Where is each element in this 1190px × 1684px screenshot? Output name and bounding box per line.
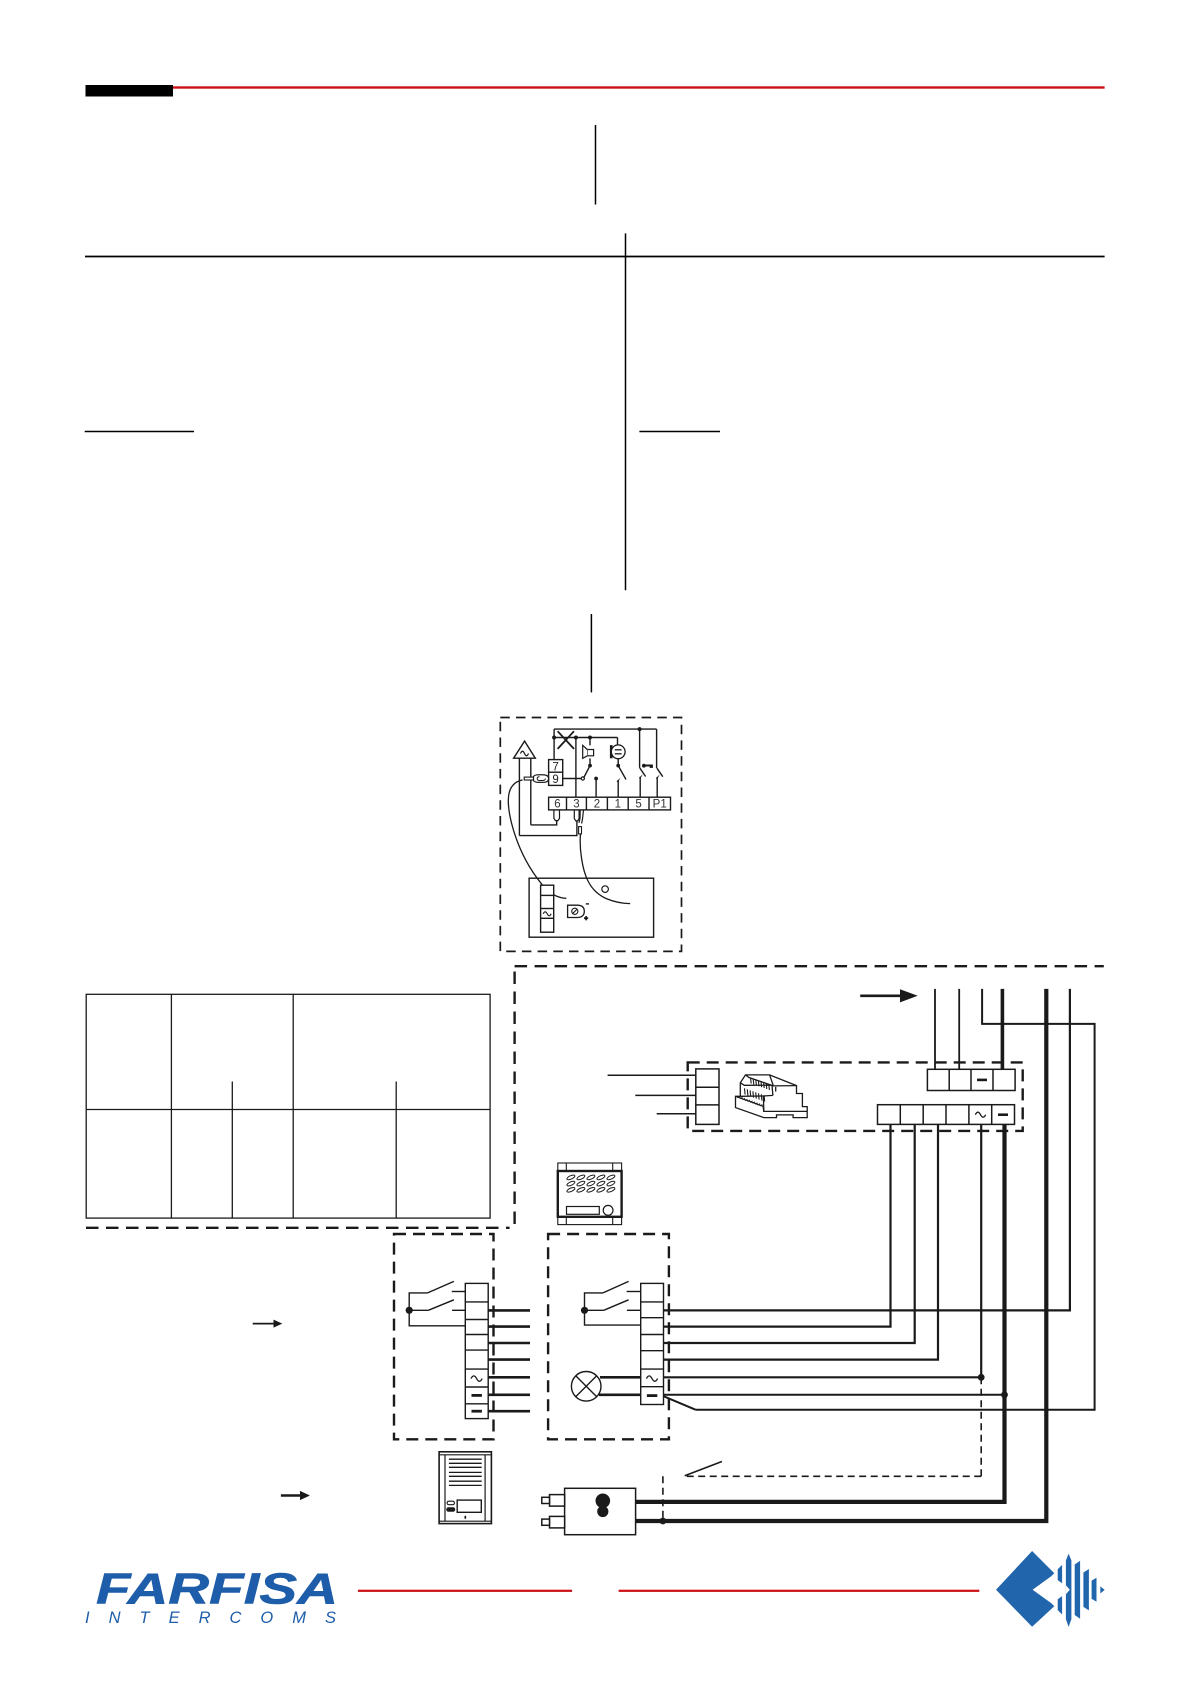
wire PSU down 3 — [664, 1124, 939, 1359]
wire thick lock bus — [636, 989, 1047, 1521]
PSU module fins row 2 — [745, 1088, 765, 1101]
wire terminal 3 drop — [575, 738, 577, 798]
mic switch pivot node — [616, 764, 620, 768]
wire from 9 to hook contact — [563, 778, 582, 780]
cord connector sleeve — [579, 827, 582, 834]
mid contact node — [594, 777, 598, 781]
faston tab under 3 left — [574, 810, 579, 821]
intercom B call switch — [585, 1281, 641, 1325]
svg-text:3: 3 — [573, 799, 579, 811]
installation boundary dashed — [86, 965, 1104, 1228]
node junction second rail at terminal3 drop — [574, 736, 578, 740]
PSU dashed enclosure — [688, 1062, 1023, 1131]
PSU mains terminal strip — [696, 1069, 719, 1125]
arrow to entrance panel — [281, 1491, 310, 1500]
ACI logo stripe 2 tall — [1066, 1554, 1072, 1627]
node junction top rail — [638, 727, 642, 731]
riser direction arrow — [860, 989, 918, 1002]
plus mark — [584, 916, 588, 920]
wire PSU down 5 thick to lock — [636, 1124, 1005, 1502]
svg-text:FARFISA: FARFISA — [96, 1565, 338, 1614]
wire PSU down 1 — [664, 1124, 891, 1326]
wire buzzer left leg — [518, 758, 520, 835]
svg-text:INTERCOMS: INTERCOMS — [85, 1609, 355, 1627]
node junction second rail left — [552, 736, 556, 740]
wire lamp to minus terminal — [599, 1394, 641, 1397]
intercom B terminal strip 7 cells — [641, 1283, 664, 1404]
PSU lower terminal strip — [878, 1105, 1015, 1125]
node minus junction — [1001, 1391, 1008, 1398]
mic switch lever — [618, 766, 626, 780]
svg-text:2: 2 — [594, 799, 600, 811]
node junction second rail at speaker drop — [588, 736, 592, 740]
node lock branch — [660, 1518, 667, 1525]
section horizontal rule — [85, 256, 1105, 258]
phone mic capsule — [568, 905, 585, 917]
wire second rail — [554, 737, 617, 739]
terminalP1 riser with contact chevron — [656, 774, 660, 797]
terminal1 riser with contact chevron — [617, 778, 621, 798]
ACI logo stripe 2 notch — [1066, 1585, 1070, 1594]
phone base body — [529, 878, 654, 937]
wire PSU down 2 — [664, 1124, 915, 1343]
footer red rule right — [619, 1590, 980, 1592]
speaker wire to pivot — [589, 758, 591, 765]
wire riser 3 L-bend to far bus — [696, 989, 1095, 1410]
mute cross X — [558, 731, 574, 749]
key icon — [642, 764, 653, 768]
microphone bar — [610, 745, 613, 758]
wire riser 4 thick to PSU — [1001, 989, 1005, 1069]
mains wire L1 — [608, 1074, 696, 1076]
door switch lever — [640, 768, 646, 777]
column divider segment middle — [625, 233, 627, 590]
ACI logo diamond — [996, 1551, 1054, 1627]
speaker switch pivot node — [588, 764, 592, 768]
column divider segment upper — [595, 125, 597, 205]
ACI logo stripe 4 — [1083, 1569, 1089, 1610]
svg-text:5: 5 — [635, 799, 641, 811]
PSU module base hatch — [738, 1096, 763, 1106]
speaker LS symbol — [583, 745, 594, 758]
P1 button wire from top rail — [656, 729, 658, 768]
phone base hole — [602, 886, 609, 893]
wire mic top to rail — [617, 738, 619, 745]
header black bar — [86, 85, 174, 97]
intercom A dashed enclosure — [394, 1234, 494, 1439]
plug pin bar — [524, 777, 533, 780]
wire inner route to terminal 6 tab — [531, 820, 557, 825]
faston tab under 3 right with cord connector — [579, 810, 580, 823]
mains wire L3 — [657, 1113, 696, 1115]
minus mark — [586, 903, 589, 905]
ACI logo stripe 3 — [1075, 1561, 1080, 1619]
intercom A call switch — [409, 1281, 465, 1325]
terminal5 riser with contact chevron — [639, 774, 643, 797]
phone base terminal strip — [541, 885, 554, 932]
plug body — [534, 775, 549, 783]
wire riser 2 to PSU terminal — [958, 989, 960, 1069]
svg-text:1: 1 — [615, 799, 621, 811]
P1 switch lever — [657, 768, 663, 777]
ACI logo stripe 1 upper — [1058, 1565, 1062, 1583]
svg-text:P1: P1 — [653, 799, 667, 811]
handset coiled cord left — [508, 780, 566, 898]
speaker LS drop wire — [589, 738, 591, 746]
microphone equals sign — [615, 750, 622, 754]
faston tab under 6 — [554, 810, 560, 821]
header red rule — [173, 86, 1105, 88]
footer red rule left — [358, 1590, 572, 1592]
svg-text:9: 9 — [552, 774, 558, 786]
microphone circle — [611, 745, 625, 759]
entrance panel drawing — [439, 1452, 491, 1524]
lock switch lever — [685, 1462, 722, 1476]
speaker switch lever — [584, 766, 590, 778]
intercom A stub wires — [488, 1310, 530, 1411]
column divider segment lower — [590, 614, 592, 692]
svg-text:7: 7 — [552, 761, 558, 773]
node intercom A switch junction — [406, 1307, 413, 1314]
left heading underline — [85, 431, 194, 433]
ACI logo stripe 5 — [1092, 1578, 1097, 1602]
hook contact open circle — [581, 777, 584, 780]
PSU upper terminal strip — [927, 1069, 1015, 1090]
intercom B dashed enclosure — [548, 1234, 669, 1439]
wire riser 1 to PSU terminal — [934, 989, 936, 1069]
ACI logo stripe 1 lower — [1058, 1596, 1062, 1614]
handset cord right — [580, 834, 630, 904]
ACI logo arrow tip — [1100, 1586, 1104, 1593]
terminal strip 6 3 2 1 5 P1 — [549, 797, 671, 811]
distance table — [86, 994, 490, 1218]
wire left drop to connector block — [553, 729, 555, 760]
mains wire L2 — [635, 1094, 696, 1096]
wire mid contact to terminal 2 — [595, 779, 597, 798]
intercom A terminal strip 8 cells — [465, 1283, 488, 1418]
wire diagonal into minus terminal of intercom B — [664, 1396, 696, 1410]
staircase lamp — [571, 1372, 601, 1402]
wire PSU down 4 to AC node — [664, 1124, 982, 1377]
wire mic to pivot — [617, 759, 619, 766]
door button wire from top rail — [639, 729, 641, 768]
svg-text:6: 6 — [554, 799, 560, 811]
handset dashed enclosure — [500, 718, 681, 952]
arrow to intercom A — [253, 1320, 283, 1328]
buzzer triangle — [514, 741, 536, 758]
wire intercomB minus — [664, 1394, 1005, 1396]
PSU DIN module 3D — [736, 1075, 808, 1118]
wire top rail — [554, 728, 657, 730]
wire riser 6 to intercom B terminal — [664, 989, 1070, 1311]
node intercom B switch junction — [581, 1307, 588, 1314]
connector block 7/9 — [549, 760, 563, 787]
external speaker unit MD30 — [558, 1163, 622, 1225]
optional dashed wire to lock switch — [663, 1377, 981, 1521]
plug body inner detail — [537, 777, 545, 781]
speaker unit grille slots — [566, 1174, 615, 1193]
wire outer route to terminal 3 tab — [519, 821, 577, 836]
node AC junction — [978, 1374, 985, 1381]
PSU module fins row 1 — [751, 1078, 770, 1090]
electric lock — [542, 1488, 636, 1534]
right heading underline — [639, 431, 720, 433]
wire buzzer right leg — [530, 758, 532, 825]
wire lamp to AC terminal — [600, 1376, 641, 1379]
